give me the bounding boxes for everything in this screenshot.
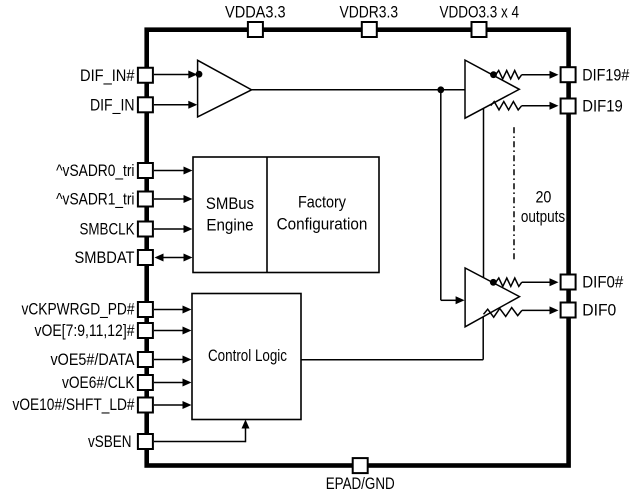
svg-text:DIF_IN: DIF_IN	[90, 96, 135, 114]
divider SMBus/Factory	[266, 157, 268, 273]
pin VDDA3.3	[248, 22, 263, 37]
junction dot on input buffer inverting input	[196, 71, 203, 78]
svg-text:vOE5#/DATA: vOE5#/DATA	[51, 351, 135, 369]
op-amp input buffer A1	[198, 60, 252, 117]
svg-text:EPAD/GND: EPAD/GND	[326, 475, 395, 493]
svg-text:^vSADR1_tri: ^vSADR1_tri	[56, 191, 134, 209]
block SMBus Engine / Factory Configuration	[193, 157, 379, 273]
dash-dot ellipsis line for 20 outputs	[513, 127, 515, 259]
op-amp output buffer A2 (DIF19)	[465, 60, 519, 118]
wire enable chain buffer A2 to buffer A3	[483, 109, 485, 278]
svg-text:SMBus: SMBus	[206, 195, 254, 213]
label Factory Configuration	[277, 194, 368, 234]
wire control logic to output buffer enables	[301, 317, 483, 360]
svg-text:vSBEN: vSBEN	[88, 433, 132, 451]
resistor on DIF19# output	[496, 71, 522, 79]
wire SMBDAT bidirectional to SMBus engine	[155, 254, 193, 262]
op-amp output buffer A3 (DIF0)	[465, 268, 519, 327]
pin EPAD/GND	[353, 458, 368, 473]
svg-text:SMBCLK: SMBCLK	[80, 220, 135, 238]
pin VDDO3.3 x 4	[472, 22, 487, 37]
svg-text:SMBDAT: SMBDAT	[75, 249, 135, 267]
svg-text:VDDO3.3 x 4: VDDO3.3 x 4	[440, 4, 520, 22]
wire vOE[7:9,11,12]# to control logic	[154, 327, 192, 335]
pin DIF19#	[561, 67, 576, 82]
pin DIF0	[561, 303, 576, 318]
wire DIF0 output to pad	[522, 306, 559, 314]
svg-text:DIF19#: DIF19#	[582, 67, 629, 85]
svg-text:vCKPWRGD_PD#: vCKPWRGD_PD#	[22, 300, 135, 318]
pin ^vSADR1_tri	[138, 192, 153, 207]
svg-text:Engine: Engine	[206, 217, 253, 235]
pin vOE[7:9,11,12]#	[138, 323, 153, 338]
svg-text:vOE6#/CLK: vOE6#/CLK	[62, 374, 135, 392]
svg-text:VDDR3.3: VDDR3.3	[340, 4, 399, 22]
pin DIF_IN	[138, 97, 153, 112]
pin vOE6#/CLK	[138, 375, 153, 390]
junction dot buffer A3 inverted output	[490, 279, 497, 286]
resistor on DIF0 output	[484, 308, 522, 318]
wire DIF19 output to pad	[522, 102, 559, 110]
label SMBus Engine	[206, 195, 254, 235]
pin SMBDAT	[138, 250, 153, 265]
resistor on DIF19 output	[491, 102, 522, 110]
wire SMBCLK to SMBus engine	[154, 225, 193, 233]
svg-text:^vSADR0_tri: ^vSADR0_tri	[56, 162, 134, 180]
svg-text:vOE[7:9,11,12]#: vOE[7:9,11,12]#	[35, 322, 135, 340]
svg-text:vOE10#/SHFT_LD#: vOE10#/SHFT_LD#	[13, 396, 135, 414]
pin SMBCLK	[138, 222, 153, 237]
wire vSBEN to control logic	[154, 420, 250, 443]
junction node main signal	[437, 86, 444, 93]
wire DIF19# output to pad	[522, 71, 559, 79]
svg-text:DIF0#: DIF0#	[582, 274, 623, 292]
svg-text:Configuration: Configuration	[277, 216, 368, 234]
pin DIF_IN#	[138, 68, 153, 83]
pin vCKPWRGD_PD#	[138, 302, 153, 317]
svg-text:DIF_IN#: DIF_IN#	[80, 67, 135, 85]
svg-text:VDDA3.3: VDDA3.3	[225, 4, 286, 22]
pin DIF0#	[561, 275, 576, 290]
svg-text:DIF19: DIF19	[582, 98, 623, 116]
svg-text:20: 20	[535, 189, 551, 207]
svg-text:Factory: Factory	[298, 194, 347, 212]
junction dot buffer A2 inverted output	[490, 71, 497, 78]
label 20 outputs	[521, 189, 565, 226]
svg-text:outputs: outputs	[521, 208, 565, 226]
svg-text:Control Logic: Control Logic	[208, 347, 287, 365]
pin ^vSADR0_tri	[138, 163, 153, 178]
wire vCKPWRGD_PD# to control logic	[154, 306, 192, 314]
wire into DIF0 buffer input	[441, 296, 465, 304]
pin vSBEN	[138, 434, 153, 449]
wire DIF0# output to pad	[522, 278, 559, 286]
wire DIF_IN# to input buffer	[154, 71, 197, 79]
wire vOE10#/SHFT_LD# to control logic	[154, 401, 192, 409]
pin VDDR3.3	[362, 22, 377, 37]
wire ^vSADR1_tri to SMBus engine	[154, 195, 193, 203]
wire vOE5#/DATA to control logic	[154, 356, 192, 364]
wire ^vSADR0_tri to SMBus engine	[154, 167, 193, 175]
block Control Logic	[192, 294, 301, 420]
pin DIF19	[561, 99, 576, 114]
chip outline U1	[147, 30, 569, 466]
svg-text:DIF0: DIF0	[582, 302, 616, 320]
wire vertical branch to DIF0 buffer	[440, 90, 442, 300]
pin vOE10#/SHFT_LD#	[138, 398, 153, 413]
pin vOE5#/DATA	[138, 352, 153, 367]
wire main signal from input buffer to output buffers	[252, 89, 465, 91]
wire DIF_IN to input buffer	[154, 101, 197, 109]
wire vOE6#/CLK to control logic	[154, 379, 192, 387]
resistor on DIF0# output	[496, 278, 522, 286]
